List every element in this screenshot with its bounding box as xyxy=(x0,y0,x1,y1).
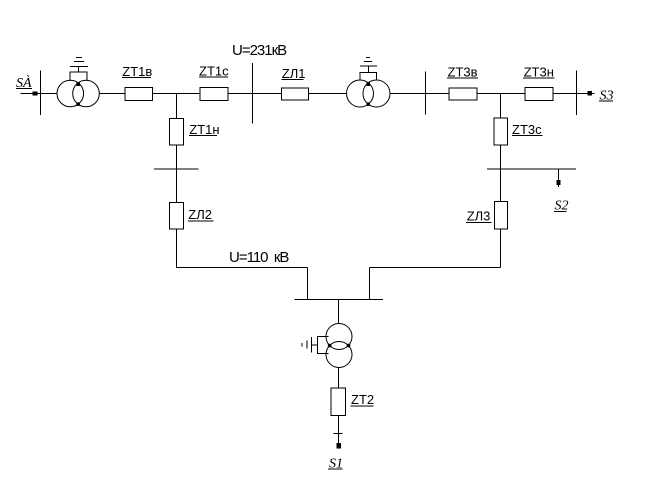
wire left leg down to 110kV bus xyxy=(307,268,309,300)
node bus left mid xyxy=(154,168,198,170)
label ZT2 xyxy=(351,392,375,407)
node S3 (load label) xyxy=(599,89,614,104)
node tick above S1 arrow xyxy=(334,433,343,435)
svg-text:ZТ3н: ZТ3н xyxy=(524,64,554,79)
label ZЛ2 xyxy=(188,207,214,222)
svg-text:ZТ3с: ZТ3с xyxy=(512,122,542,137)
resistor ZТ3с xyxy=(494,118,508,145)
wire 110kV bus to T3 xyxy=(338,300,340,324)
wire ZT3v to ZT3n xyxy=(477,93,525,95)
resistor ZT1в xyxy=(125,88,153,101)
resistor ZT1с xyxy=(200,88,228,101)
resistor ZТ1н xyxy=(170,119,184,146)
svg-text:U=231кВ: U=231кВ xyxy=(232,42,287,59)
wire right leg down to 110kV bus xyxy=(368,268,370,300)
label ZT3н xyxy=(523,64,554,79)
svg-text:U=110 кВ: U=110 кВ xyxy=(229,249,289,266)
bus node A (left system bus) xyxy=(40,70,42,115)
svg-text:ZТ2: ZТ2 xyxy=(351,392,374,407)
node S2 (load label) xyxy=(554,199,569,214)
svg-text:ZЛ2: ZЛ2 xyxy=(188,207,212,222)
label ZT1н xyxy=(189,122,220,137)
bus node 110kV xyxy=(294,299,383,301)
label ZT3с xyxy=(512,122,543,137)
transformer T2 neutral tap rectangle xyxy=(360,66,377,81)
transformer T3 (two-winding, bottom) xyxy=(326,324,352,368)
wire ZT1s to ZL1 xyxy=(228,93,282,95)
resistor ZТ3н xyxy=(525,88,553,101)
wire ZT3n to S3 xyxy=(553,93,594,95)
wire bottom left horizontal xyxy=(176,267,307,269)
wire ZT2 to S1 xyxy=(338,416,340,449)
label ZЛ1 xyxy=(281,66,305,81)
ground (T2 neutral) xyxy=(360,58,377,66)
label ZT1в xyxy=(122,64,152,79)
wire junction node to ZT1n xyxy=(175,94,177,119)
transformer T2 (autotransformer, right) xyxy=(347,80,391,107)
wire ZL3 down xyxy=(500,229,502,268)
svg-text:ZТ1в: ZТ1в xyxy=(122,64,152,79)
wire T3 to ZT2 xyxy=(338,368,340,389)
arrow to S3 xyxy=(588,92,592,96)
label ZT1с xyxy=(199,64,229,79)
label ZT3в xyxy=(447,64,478,79)
transformer T3 neutral tap rectangle xyxy=(312,337,329,354)
arrow to S2 xyxy=(557,181,560,185)
transformer T1 neutral tap rectangle xyxy=(70,66,87,81)
svg-text:ZТ3в: ZТ3в xyxy=(448,64,478,79)
bus node S3 (right system bus) xyxy=(576,70,578,115)
label ZЛ3 xyxy=(466,209,491,224)
ground (T3 neutral) xyxy=(302,337,312,352)
wire ZT1v to ZT1s xyxy=(153,93,201,95)
bus node B (right of T2) xyxy=(425,71,427,114)
bus node 231kV xyxy=(252,63,254,123)
wire junction node to ZT3s xyxy=(500,94,502,119)
wire bottom right horizontal xyxy=(369,267,500,269)
svg-text:ZЛ3: ZЛ3 xyxy=(467,209,491,224)
node S1 (load label) xyxy=(328,457,343,472)
svg-text:ZТ1с: ZТ1с xyxy=(199,64,229,79)
wire source SA to transformer T1 xyxy=(21,93,58,95)
arrow to SA xyxy=(33,92,37,95)
resistor ZЛ1 xyxy=(282,88,309,100)
wire ZL2 down xyxy=(175,229,177,268)
wire ZT1n down xyxy=(175,145,177,203)
node SA (source label) xyxy=(16,74,32,91)
transformer T1 (autotransformer, left) xyxy=(57,80,99,107)
resistor ZЛ3 xyxy=(495,202,508,230)
ground (T1 neutral) xyxy=(70,57,88,66)
wire T2 to ZT3v xyxy=(390,93,449,95)
wire T1 to ZT1v xyxy=(99,93,125,95)
resistor ZТ3в xyxy=(449,88,477,100)
resistor ZТ2 xyxy=(331,388,346,416)
wire ZT3s down xyxy=(500,145,502,202)
svg-text:ZТ1н: ZТ1н xyxy=(189,122,219,137)
wire arrow stem S2 xyxy=(558,169,560,187)
wire ZL1 to transformer T2 xyxy=(309,93,347,95)
svg-text:ZЛ1: ZЛ1 xyxy=(282,66,306,81)
node bus right mid xyxy=(487,168,576,170)
resistor ZЛ2 xyxy=(170,203,184,230)
arrow to S1 xyxy=(337,444,341,449)
